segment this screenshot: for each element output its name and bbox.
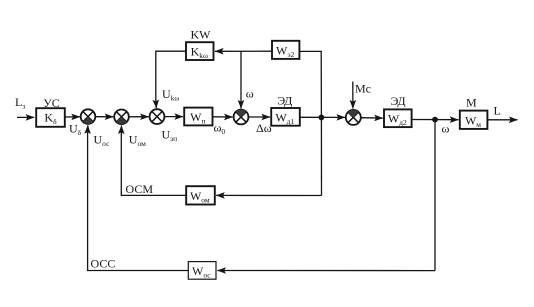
svg-text:ω: ω (442, 122, 450, 136)
block Wп (184, 108, 212, 126)
svg-text:ω: ω (246, 87, 254, 101)
wire Wэ2 to Kkω (215, 50, 272, 52)
wire junction A down to ОСМ line (320, 117, 322, 195)
node ω label after Wд2 (442, 122, 450, 136)
svg-text:Uом: Uом (129, 133, 146, 149)
svg-text:Δω: Δω (256, 121, 272, 135)
block Wд2 (ЭД) (384, 94, 412, 127)
svg-text:Kkω: Kkω (191, 45, 208, 61)
wire S4 to Wд1 (248, 116, 270, 118)
wire Wом output to S2 (121, 132, 186, 195)
summing junction S3 (150, 109, 165, 124)
node Δω label (256, 121, 272, 135)
wire ОСС feedback line into Wос (217, 270, 435, 272)
wire S1 to S2 (95, 116, 113, 118)
svg-text:Wд2: Wд2 (388, 112, 407, 128)
svg-text:Uδ: Uδ (69, 122, 82, 138)
svg-text:ЭД: ЭД (277, 94, 292, 108)
svg-text:ОСМ: ОСМ (126, 182, 154, 196)
wire ОСМ feedback line into Wом (216, 194, 321, 196)
wire S3 to Wп (164, 116, 183, 118)
wire S2 to S3 (129, 116, 149, 118)
svg-text:Uос: Uос (94, 133, 111, 149)
summing junction S2 (114, 110, 129, 125)
node ω label on branch to S4 (246, 87, 254, 101)
node junction dot B after Wд2 (432, 117, 438, 123)
svg-text:ОСС: ОСС (91, 256, 116, 270)
node Uом label (129, 133, 146, 149)
block УС (Kδ) U1 (36, 96, 65, 127)
block Wос (188, 262, 216, 280)
summing junction S5 (346, 110, 361, 125)
wire Kδ to summer S1 (65, 116, 80, 118)
wire S5 to Wд2 (361, 117, 383, 119)
node Lз input label (15, 95, 25, 111)
wire Wд2 to Wм (412, 119, 459, 121)
wire Мс input into S5 (352, 82, 354, 109)
svg-text:Uзп: Uзп (162, 128, 178, 144)
summing junction S4 (234, 110, 249, 125)
svg-text:Wос: Wос (192, 264, 211, 280)
svg-text:Lз: Lз (15, 95, 25, 111)
node ОСС label (91, 256, 116, 270)
svg-text:Wом: Wом (190, 189, 210, 205)
wire branch from top line down into S4 (240, 51, 242, 100)
svg-text:ЭД: ЭД (390, 94, 405, 108)
svg-text:Kδ: Kδ (44, 111, 57, 127)
wire Wос output to S1 (88, 132, 189, 271)
svg-text:Wм: Wм (465, 113, 481, 129)
svg-text:L: L (494, 103, 501, 117)
node L output label (494, 103, 501, 117)
svg-text:Wэ2: Wэ2 (276, 44, 295, 60)
block Kkω (KW) (186, 27, 214, 60)
node Uδ label (69, 122, 82, 138)
node ω0 label (214, 121, 226, 137)
node Uос label (94, 133, 111, 149)
svg-text:УС: УС (43, 96, 60, 110)
node Uзп label (162, 128, 178, 144)
node Мс label (355, 82, 371, 96)
wire Kkω output down to S3 (156, 51, 186, 100)
node ОСМ label (126, 182, 154, 196)
node junction dot A after Wд1 (319, 115, 325, 121)
block Wд1 (ЭД) (271, 94, 300, 126)
wire Wп to S4 (213, 116, 233, 118)
svg-text:ω0: ω0 (214, 121, 226, 137)
summing junction S1 (81, 109, 96, 124)
svg-text:М: М (466, 96, 477, 110)
wire output arrow from Wм (487, 119, 517, 121)
block Wэ2 top (272, 41, 299, 59)
svg-text:KW: KW (191, 27, 212, 41)
svg-text:Wд1: Wд1 (275, 110, 294, 126)
svg-text:Мс: Мс (355, 82, 371, 96)
svg-text:Ukω: Ukω (162, 87, 179, 103)
wire junction A up to Wэ2 input (299, 51, 321, 117)
wire junction B down to ОСС line (434, 120, 436, 271)
wire Wд1 to S5 (300, 116, 345, 118)
svg-text:Wп: Wп (190, 110, 205, 126)
block Wм (М) (460, 96, 488, 129)
block Wом (186, 186, 215, 204)
node Ukω label (162, 87, 179, 103)
wire input arrow into УС (17, 116, 34, 118)
